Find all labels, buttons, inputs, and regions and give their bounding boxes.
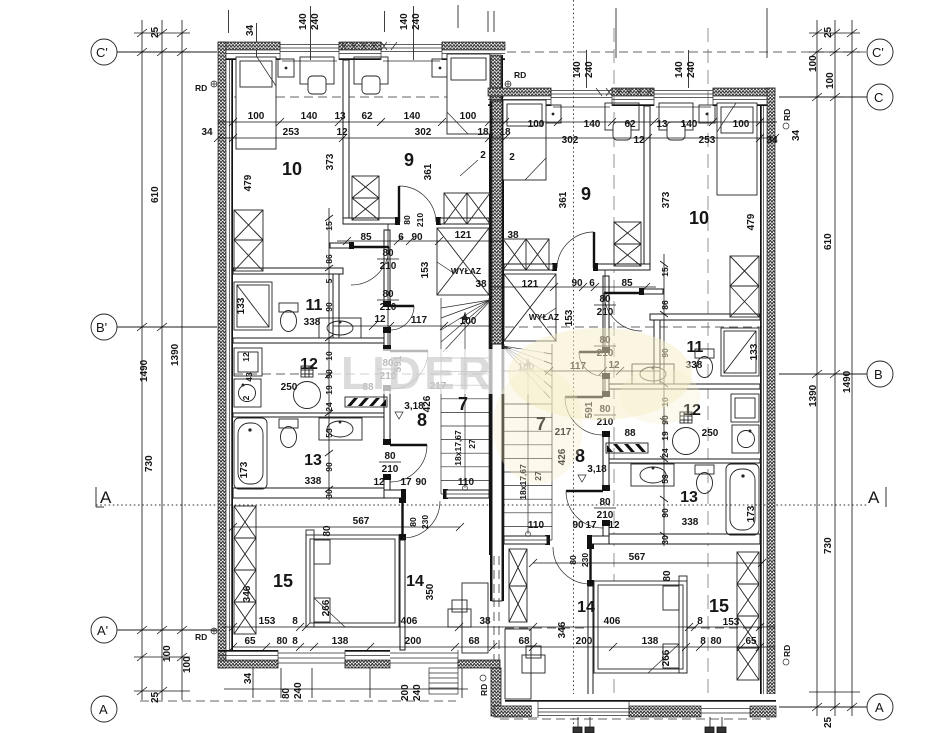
svg-text:240: 240 [584, 61, 595, 78]
svg-text:12: 12 [608, 520, 620, 531]
grid line C [234, 96, 867, 98]
svg-text:86: 86 [660, 300, 670, 310]
bottom dim line left unit [224, 668, 468, 698]
exterior wall bottom [218, 650, 390, 668]
left unit text labels [201, 111, 519, 647]
wall room13 bottom [233, 488, 384, 498]
svg-text:12: 12 [633, 135, 645, 146]
svg-text:610: 610 [823, 233, 834, 250]
wall stairhall left seg4 [384, 478, 390, 498]
svg-text:9: 9 [404, 150, 414, 170]
vertical dims upper left [243, 153, 434, 191]
door jamb 12b [383, 385, 391, 391]
RD marker right wall top [782, 109, 802, 141]
svg-text:2: 2 [241, 395, 251, 400]
svg-text:140: 140 [584, 119, 601, 130]
svg-text:65: 65 [244, 636, 256, 647]
svg-text:121: 121 [455, 230, 472, 241]
lintel crosshatch [341, 42, 397, 50]
door jamb room9 left [395, 217, 400, 225]
svg-text:80: 80 [710, 636, 722, 647]
grid bubble C right [867, 84, 893, 110]
svg-text:53: 53 [660, 474, 670, 484]
wall rooms 12-13 [233, 413, 384, 417]
svg-text:B': B' [96, 320, 107, 335]
level 3.18 right [578, 464, 607, 482]
dim 12 washer vertical [241, 352, 254, 400]
svg-text:153: 153 [564, 309, 575, 326]
grid bubble A right [867, 694, 893, 720]
svg-text:173: 173 [239, 461, 250, 478]
svg-text:9: 9 [581, 184, 591, 204]
dim line room11 row [333, 322, 492, 330]
svg-text:43: 43 [244, 372, 254, 382]
svg-text:1390: 1390 [808, 384, 819, 407]
dims row 644 [244, 636, 480, 647]
svg-text:100: 100 [825, 72, 836, 89]
svg-text:110: 110 [458, 477, 475, 488]
svg-text:25: 25 [150, 691, 161, 703]
svg-text:13: 13 [656, 119, 668, 130]
hall dims [360, 230, 519, 243]
svg-text:34: 34 [791, 129, 802, 141]
desk room9 [354, 57, 388, 94]
svg-text:25: 25 [150, 26, 161, 38]
svg-text:361: 361 [558, 191, 569, 208]
svg-text:479: 479 [746, 213, 757, 230]
right unit (mirrored copy of left unit) [488, 88, 775, 714]
svg-text:302: 302 [562, 135, 579, 146]
door dim 80/210 hall right [594, 294, 616, 318]
svg-text:RD: RD [514, 70, 526, 80]
roof edge dashed pair [494, 556, 499, 660]
svg-text:13: 13 [304, 452, 322, 469]
svg-text:2: 2 [480, 150, 486, 161]
right unit bottom wall override [505, 694, 776, 717]
svg-text:25: 25 [823, 716, 834, 728]
svg-text:18x17,67: 18x17,67 [453, 430, 463, 466]
svg-text:RD: RD [195, 632, 207, 642]
svg-text:34: 34 [243, 672, 254, 684]
section line A dotted [96, 504, 868, 506]
svg-text:WYŁAZ: WYŁAZ [529, 312, 559, 322]
bottom stub dims right unit [573, 716, 726, 733]
svg-text:11: 11 [306, 297, 323, 314]
door dim 80/210 room11 right [594, 335, 616, 359]
bathtub room13 [234, 418, 267, 489]
wall shower right [333, 274, 339, 338]
svg-text:140: 140 [301, 111, 318, 122]
dim line 567 right [529, 552, 766, 582]
wardrobe room9 right [444, 193, 490, 224]
washing machine room12 [234, 348, 262, 376]
svg-text:406: 406 [401, 616, 418, 627]
door dim 80/210 door9 rotated [402, 213, 425, 227]
svg-text:RD: RD [782, 645, 792, 657]
vertical dim line bath column [325, 208, 333, 500]
svg-text:173: 173 [746, 505, 757, 522]
svg-text:12: 12 [300, 356, 318, 373]
svg-text:610: 610 [150, 186, 161, 203]
svg-text:RD: RD [195, 83, 207, 93]
svg-text:80: 80 [599, 294, 611, 305]
svg-text:2: 2 [509, 152, 515, 163]
svg-text:210: 210 [380, 261, 397, 272]
door dim 80/210 room12 right [594, 404, 616, 428]
svg-text:250: 250 [702, 428, 719, 439]
svg-text:200: 200 [405, 636, 422, 647]
dims row 621 [259, 616, 491, 627]
top dim labels right unit [587, 8, 768, 88]
grid line A bottom [140, 701, 867, 719]
svg-text:266: 266 [661, 649, 672, 666]
wall rooms 11-12 [233, 338, 384, 343]
svg-text:80: 80 [662, 570, 673, 582]
grid bubble C' left [91, 39, 117, 65]
svg-text:100: 100 [162, 645, 173, 662]
wall room10 bottom [233, 268, 343, 274]
svg-text:346: 346 [242, 585, 253, 602]
svg-text:153: 153 [420, 261, 431, 278]
desk room10 [300, 57, 334, 94]
svg-text:C: C [874, 90, 883, 105]
dim line row3 bottom [222, 626, 775, 628]
svg-text:25: 25 [823, 26, 834, 38]
svg-text:140: 140 [404, 111, 421, 122]
svg-text:15: 15 [324, 221, 334, 231]
washbasin room13 [319, 418, 362, 440]
svg-text:30: 30 [324, 489, 334, 499]
left unit geometry [218, 42, 505, 668]
svg-text:90: 90 [415, 477, 427, 488]
entrance steps [429, 668, 458, 694]
svg-text:80: 80 [402, 215, 412, 225]
svg-text:15: 15 [273, 571, 293, 591]
svg-text:250: 250 [281, 382, 298, 393]
wardrobe room15 [234, 506, 256, 634]
door jamb 12a [383, 345, 391, 351]
svg-text:18: 18 [477, 127, 489, 138]
svg-text:14: 14 [406, 573, 424, 590]
wall partition rooms 10-9 [343, 60, 349, 222]
right chain labels [808, 26, 853, 728]
svg-text:117: 117 [411, 315, 428, 326]
hall dims right [475, 278, 633, 290]
svg-text:240: 240 [293, 682, 304, 699]
svg-text:65: 65 [745, 636, 757, 647]
left chain ticks [134, 29, 190, 695]
svg-text:34: 34 [766, 135, 778, 146]
svg-text:38: 38 [475, 279, 487, 290]
svg-text:140: 140 [298, 13, 309, 30]
svg-text:210: 210 [382, 464, 399, 475]
svg-text:567: 567 [353, 516, 370, 527]
svg-text:13: 13 [334, 111, 346, 122]
svg-text:34: 34 [245, 24, 256, 36]
svg-text:100: 100 [733, 119, 750, 130]
svg-text:12: 12 [241, 352, 251, 362]
svg-text:3,18: 3,18 [587, 464, 607, 475]
svg-text:38: 38 [479, 616, 491, 627]
door row dims room13 right [528, 520, 620, 531]
door dim 80/230 vertical right [568, 553, 590, 567]
watermark white plate [332, 349, 544, 394]
svg-text:100: 100 [808, 55, 819, 72]
RD marker bottom-left [195, 628, 217, 642]
svg-text:11: 11 [687, 339, 704, 356]
svg-text:90: 90 [324, 302, 334, 312]
svg-text:34: 34 [201, 127, 213, 138]
RD marker top-left [195, 81, 217, 93]
vertical dim line entry column [387, 224, 389, 345]
dashed projection line x708 [707, 28, 709, 712]
door dim 80/230 vertical [408, 515, 430, 529]
grid bubble B right [867, 361, 893, 387]
svg-text:A: A [875, 700, 884, 715]
svg-text:100: 100 [248, 111, 265, 122]
desk room14 [448, 600, 471, 627]
window top 1 [280, 42, 339, 61]
nightstand room10 [278, 59, 294, 77]
grid bubble B' left [91, 314, 117, 340]
dim line row2 [218, 137, 777, 139]
svg-text:730: 730 [823, 537, 834, 554]
vertical small dims bath column [324, 221, 334, 499]
svg-text:62: 62 [624, 119, 636, 130]
RD marker top-middle [505, 70, 526, 87]
watermark yellow glow right [620, 368, 700, 424]
svg-text:138: 138 [642, 636, 659, 647]
svg-text:14: 14 [577, 599, 595, 616]
wardrobe room9 [352, 176, 379, 220]
svg-text:479: 479 [243, 174, 254, 191]
watermark yellow glow main [508, 328, 692, 420]
svg-text:LIDER: LIDER [341, 347, 494, 399]
svg-text:8: 8 [292, 616, 298, 627]
stair dims vertical right [518, 464, 543, 500]
door jamb 15a [399, 534, 406, 540]
wall dims row2 left [201, 127, 489, 138]
toilet room11 [279, 303, 298, 332]
svg-text:13: 13 [680, 489, 698, 506]
svg-text:266: 266 [321, 599, 332, 616]
svg-text:140: 140 [572, 61, 583, 78]
sink room12 [234, 379, 261, 407]
door jamb 13b [383, 474, 391, 480]
svg-text:240: 240 [411, 13, 422, 30]
door to room13 [390, 445, 427, 482]
watermark yellow glow lower [493, 368, 583, 484]
washbasin room11 [319, 318, 361, 338]
svg-text:80: 80 [384, 451, 396, 462]
door dim 80/210 hall [377, 248, 399, 272]
dim line room11 row right [501, 367, 660, 375]
svg-text:80: 80 [382, 289, 394, 300]
svg-text:240: 240 [686, 61, 697, 78]
svg-text:100: 100 [182, 656, 193, 673]
svg-text:210: 210 [597, 307, 614, 318]
RD marker right wall bottom [782, 645, 792, 665]
svg-text:361: 361 [423, 163, 434, 180]
door hall to room9 [399, 186, 436, 222]
section mark A right [868, 487, 886, 507]
door to room12 [390, 351, 428, 389]
svg-text:15: 15 [660, 267, 670, 277]
svg-text:A: A [100, 488, 112, 507]
svg-text:1490: 1490 [139, 359, 150, 382]
svg-text:12: 12 [374, 314, 386, 325]
window dims row1 left [248, 111, 477, 122]
svg-text:12: 12 [336, 127, 348, 138]
window dims row1 right [528, 119, 750, 130]
svg-text:346: 346 [557, 621, 568, 638]
bed room9 [447, 54, 490, 134]
svg-text:730: 730 [144, 455, 155, 472]
section mark A left [96, 487, 112, 507]
svg-text:24: 24 [324, 402, 334, 412]
door jamb 11a [383, 301, 391, 307]
svg-text:8: 8 [700, 636, 706, 647]
svg-text:338: 338 [304, 317, 321, 328]
attic hatch box [437, 228, 489, 295]
svg-text:80: 80 [281, 687, 292, 699]
watermark [332, 328, 700, 484]
grid line B [234, 373, 867, 375]
svg-text:18: 18 [499, 127, 511, 138]
door row dims room13 [373, 477, 474, 488]
door jamb 14b [443, 489, 448, 499]
door row dims room11 [374, 314, 476, 327]
middle porch between units [429, 549, 776, 717]
grid line A' [117, 628, 762, 630]
svg-text:230: 230 [580, 553, 590, 567]
svg-text:WYŁAZ: WYŁAZ [451, 266, 481, 276]
svg-text:86: 86 [324, 254, 334, 264]
door to room11 [390, 306, 414, 330]
floor grate room12 [345, 397, 387, 407]
svg-text:338: 338 [305, 476, 322, 487]
dims row 621 right [604, 616, 740, 628]
right dimension chain lines [817, 20, 852, 716]
right chain ticks [809, 29, 860, 711]
svg-text:373: 373 [661, 191, 672, 208]
grid line B' [117, 326, 762, 328]
svg-text:17: 17 [400, 477, 412, 488]
door dim 80/210 room13 [379, 451, 401, 475]
top dimension line left unit [229, 5, 495, 60]
toilet room13 [279, 419, 298, 448]
wardrobe room10 [234, 210, 263, 271]
svg-text:1390: 1390 [170, 343, 181, 366]
svg-text:30: 30 [660, 535, 670, 545]
svg-text:15: 15 [709, 596, 729, 616]
svg-text:133: 133 [749, 343, 760, 360]
round basin room12 [294, 366, 321, 409]
svg-text:12: 12 [373, 477, 385, 488]
svg-text:10: 10 [282, 159, 302, 179]
svg-text:90: 90 [660, 508, 670, 518]
left dimension chain lines [142, 20, 182, 700]
svg-text:100: 100 [528, 119, 545, 130]
svg-text:10: 10 [689, 208, 709, 228]
vertical small dims bath column right [660, 267, 670, 545]
svg-text:200: 200 [400, 684, 411, 701]
top dim labels left [245, 13, 422, 36]
svg-text:80: 80 [599, 497, 611, 508]
porch wall patch [494, 706, 538, 717]
svg-text:8: 8 [292, 636, 298, 647]
nightstand room9 [432, 59, 448, 77]
svg-text:A: A [868, 488, 880, 507]
svg-text:80: 80 [408, 517, 418, 527]
right unit text labels [475, 119, 778, 666]
door jamb room9 right [436, 217, 441, 225]
door dim 80/210 room12 [377, 358, 399, 382]
svg-text:210: 210 [380, 302, 397, 313]
door to room14 [403, 500, 441, 538]
svg-text:210: 210 [415, 213, 425, 227]
svg-text:80: 80 [276, 636, 288, 647]
wardrobe room14 [462, 583, 488, 653]
party wall right [489, 55, 503, 555]
door jamb corridor [349, 242, 354, 249]
svg-text:62: 62 [361, 111, 373, 122]
svg-text:19: 19 [660, 431, 670, 441]
dims row 644 right [518, 636, 757, 647]
svg-text:90: 90 [572, 520, 584, 531]
svg-text:240: 240 [412, 684, 423, 701]
door jamb 15b [399, 498, 406, 503]
svg-text:B: B [874, 367, 883, 382]
svg-text:110: 110 [528, 520, 545, 531]
level 3.18 [395, 401, 424, 419]
svg-text:100: 100 [460, 316, 477, 327]
svg-text:140: 140 [399, 13, 410, 30]
svg-text:8: 8 [417, 410, 427, 430]
dim line hall row [337, 237, 502, 245]
wardrobe right landing [509, 549, 527, 622]
shower room11 [234, 282, 272, 330]
svg-text:5: 5 [324, 278, 334, 283]
svg-text:1490: 1490 [842, 370, 853, 393]
wall rooms 15-14 [400, 540, 405, 650]
svg-text:80: 80 [322, 525, 333, 537]
svg-text:406: 406 [604, 616, 621, 627]
svg-text:C': C' [96, 45, 108, 60]
svg-text:100: 100 [460, 111, 477, 122]
svg-text:RD: RD [479, 684, 489, 696]
door dim 80/210 room13 right [594, 497, 616, 521]
hatch leader line [437, 262, 452, 272]
shared dimension lines [214, 118, 779, 651]
wall stairhall left seg1 [384, 230, 390, 306]
wall stairhall left seg2 [384, 332, 390, 350]
bottom dim labels left [243, 672, 423, 701]
exterior wall top [218, 42, 505, 60]
dim line row1 windows [218, 121, 777, 123]
svg-text:140: 140 [674, 61, 685, 78]
door row dims room11 right [518, 360, 620, 373]
door dim 80/210 room11 [377, 289, 399, 313]
door jamb 13a [383, 439, 391, 445]
svg-text:27: 27 [467, 439, 477, 449]
window bottom 1 [278, 650, 345, 668]
svg-text:240: 240 [310, 13, 321, 30]
RD marker bottom porch [479, 675, 489, 696]
bed room15 [306, 530, 399, 627]
svg-text:350: 350 [425, 583, 436, 600]
terrace door bottom [390, 650, 458, 668]
